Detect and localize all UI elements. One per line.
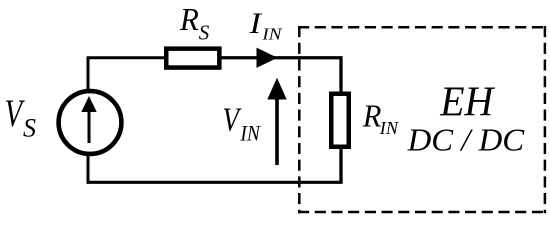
voltage arrow V_IN — [267, 78, 286, 165]
svg-text:R: R — [179, 1, 199, 37]
voltage source VS (circle) — [59, 91, 122, 154]
wire: bottom rail from source to R_IN — [87, 181, 343, 184]
svg-text:V: V — [223, 101, 242, 138]
label V_S — [5, 92, 36, 143]
wire: R_IN bottom to bottom rail — [339, 147, 342, 183]
svg-text:S: S — [199, 20, 210, 44]
dashed box EH DC/DC block — [298, 26, 546, 213]
svg-text:I: I — [248, 8, 262, 40]
svg-text:EH: EH — [439, 79, 495, 125]
wire: source top to R_S left — [88, 58, 167, 155]
label I_IN — [248, 8, 282, 44]
svg-text:IN: IN — [240, 121, 261, 146]
svg-text:IN: IN — [261, 25, 282, 44]
svg-text:IN: IN — [379, 118, 400, 138]
label R_S — [179, 1, 210, 45]
label V_IN — [223, 101, 261, 145]
wire: R_S right to top-right corner node — [219, 58, 341, 95]
current arrow I_IN — [257, 48, 278, 68]
wire: source bottom to bottom rail — [87, 153, 90, 183]
svg-text:DC / DC: DC / DC — [407, 123, 525, 158]
resistor R_IN — [331, 94, 349, 147]
label R_IN — [362, 98, 400, 139]
svg-text:S: S — [23, 114, 36, 143]
voltage source VS internal arrow — [81, 96, 96, 143]
resistor R_S — [166, 49, 219, 68]
